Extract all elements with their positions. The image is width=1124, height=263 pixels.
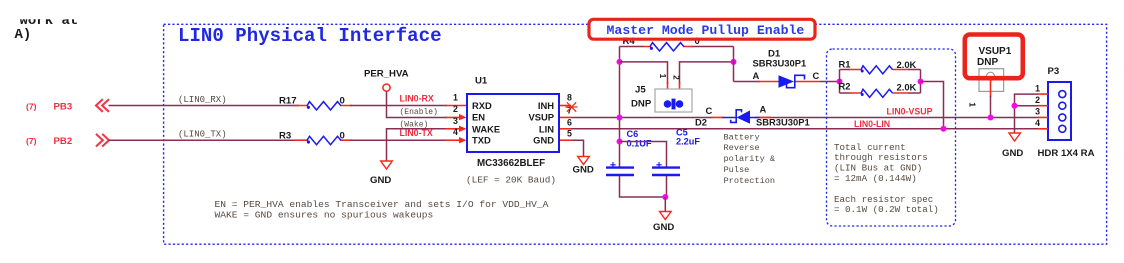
wire VSUP1 to VSUP row xyxy=(990,96,992,117)
header VSUP1 rotated pin number 1 xyxy=(968,102,978,107)
svg-text:4: 4 xyxy=(1035,118,1040,128)
no-connect X on pin 8 xyxy=(566,102,578,111)
svg-text:INH: INH xyxy=(538,100,554,111)
svg-text:(LEF = 20K Baud): (LEF = 20K Baud) xyxy=(466,174,556,185)
IC U1 body MC33662BLEF xyxy=(467,94,559,152)
pin 5 stub GND xyxy=(560,139,572,141)
jumper J5 body xyxy=(655,89,692,112)
wire J5 pin2 branch xyxy=(680,62,734,84)
diode D2 body (schottky, pointing left) xyxy=(737,110,751,123)
wire VSUP row (pin7 to D2 cathode) xyxy=(571,116,713,118)
svg-text:Battery: Battery xyxy=(724,132,760,142)
svg-text:DNP: DNP xyxy=(977,57,998,68)
dashed annotation box around R1/R2 and current note xyxy=(827,49,956,226)
svg-text:EN: EN xyxy=(472,112,485,123)
wire P3 pins 1,2 to GND xyxy=(1015,94,1039,133)
pin 3 stub with arrow (WAKE) xyxy=(445,128,460,130)
svg-text:= 12mA (0.144W): = 12mA (0.144W) xyxy=(834,173,917,184)
svg-text:WAKE: WAKE xyxy=(472,123,500,134)
wire R17 to pin 1 xyxy=(350,105,447,107)
svg-text:A: A xyxy=(760,104,767,115)
svg-text:2: 2 xyxy=(671,75,680,80)
svg-text:TXD: TXD xyxy=(472,135,491,146)
connector P3 pin stubs xyxy=(1038,94,1048,129)
svg-text:2: 2 xyxy=(1035,95,1040,105)
wire LIN0_RX from PB3 to R17 xyxy=(109,105,300,107)
svg-text:LIN0-LIN: LIN0-LIN xyxy=(854,119,890,129)
ground symbol (C5/C6) xyxy=(660,212,672,220)
pin 2 stub with arrow (EN) xyxy=(445,116,460,118)
svg-text:LIN: LIN xyxy=(539,123,554,134)
wire pin5 to ground xyxy=(572,140,584,156)
svg-text:1: 1 xyxy=(658,74,667,79)
svg-text:Pulse: Pulse xyxy=(724,165,750,175)
svg-text:WAKE = GND ensures no spurious: WAKE = GND ensures no spurious wakeups xyxy=(215,209,434,220)
svg-text:VSUP1: VSUP1 xyxy=(979,46,1012,57)
vertical R1/R2 right xyxy=(920,70,922,94)
junction dot P3 GND xyxy=(1012,103,1018,109)
svg-text:1: 1 xyxy=(453,93,458,103)
diode D1 leads xyxy=(758,81,820,83)
pin 1 stub (RXD) xyxy=(445,105,466,107)
pin 4 stub with arrow (TXD) xyxy=(445,139,460,141)
wire R1/R2 to LIN row xyxy=(921,82,944,129)
diode D1 body (schottky, pointing right) xyxy=(779,75,795,87)
junction dot R1/R2 right xyxy=(918,79,924,85)
wire to D1 anode xyxy=(734,81,761,83)
svg-text:(LIN0_TX): (LIN0_TX) xyxy=(178,130,227,140)
svg-text:Master Mode Pullup Enable: Master Mode Pullup Enable xyxy=(607,23,805,38)
svg-text:GND: GND xyxy=(533,135,554,146)
header VSUP1 contact circle xyxy=(987,72,995,80)
off-page connector chevron PB2 (right-pointing double chevron) xyxy=(96,134,109,147)
ground symbol (P3) xyxy=(1009,133,1021,141)
svg-text:C: C xyxy=(706,105,713,116)
diode D2 leads xyxy=(711,116,771,118)
resistor R1 leads xyxy=(840,69,921,71)
jumper J5 pin stubs xyxy=(668,82,680,99)
svg-text:2.0K: 2.0K xyxy=(897,81,917,92)
callout red box Master Mode Pullup Enable xyxy=(589,19,815,39)
capacitor C5 plus xyxy=(656,162,661,167)
svg-text:6: 6 xyxy=(567,117,572,127)
vertical wire R4/J5 branch to VSUP and C6 xyxy=(620,47,666,198)
svg-text:DNP: DNP xyxy=(631,99,652,110)
jumper J5 rotated pin number 1 xyxy=(658,74,667,79)
svg-text:LIN0-VSUP: LIN0-VSUP xyxy=(887,107,933,117)
junction dot J5 left xyxy=(617,59,623,65)
clipped text "work at" top-left xyxy=(20,13,79,29)
svg-text:GND: GND xyxy=(1002,148,1023,159)
resistor R3 leads xyxy=(294,139,352,141)
svg-text:(7): (7) xyxy=(26,136,37,146)
capacitor C6 plates xyxy=(606,168,634,175)
pin 8 stub INH xyxy=(560,105,571,107)
svg-text:GND: GND xyxy=(573,165,594,176)
svg-text:Total current: Total current xyxy=(834,142,906,153)
outer dashed schematic border xyxy=(164,24,1107,244)
svg-text:A): A) xyxy=(15,27,32,43)
svg-text:PER_HVA: PER_HVA xyxy=(364,69,409,80)
svg-text:R17: R17 xyxy=(279,96,297,107)
svg-text:Reverse: Reverse xyxy=(724,143,760,153)
wire D1 cathode to R1/R2 xyxy=(820,81,840,83)
svg-text:RXD: RXD xyxy=(472,100,492,111)
junction dot VSUP/J5 xyxy=(617,114,623,120)
resistor R1 zigzag xyxy=(861,66,893,74)
callout red box VSUP1 DNP xyxy=(965,35,1023,79)
junction dot VSUP1 xyxy=(988,114,994,120)
svg-text:C: C xyxy=(813,70,820,81)
resistor R4 leads xyxy=(643,46,692,48)
resistor R4 row wire xyxy=(620,46,734,48)
vertical R1/R2 left xyxy=(839,70,841,94)
pin 7 stub VSUP xyxy=(560,116,571,118)
svg-text:(7): (7) xyxy=(26,101,37,111)
svg-text:1: 1 xyxy=(968,102,978,107)
svg-text:PB3: PB3 xyxy=(54,101,73,112)
ground symbol (U1 pin5) xyxy=(578,157,590,165)
junction dot R1/R2 left xyxy=(837,79,843,85)
svg-text:R3: R3 xyxy=(279,130,291,141)
header VSUP1 pin stub xyxy=(990,80,992,97)
svg-text:HDR 1X4 RA: HDR 1X4 RA xyxy=(1038,148,1095,159)
svg-text:through resistors: through resistors xyxy=(834,152,928,163)
svg-text:2.0K: 2.0K xyxy=(897,59,917,70)
svg-text:GND: GND xyxy=(653,222,674,233)
svg-text:1: 1 xyxy=(1035,83,1040,93)
svg-text:LIN0-TX: LIN0-TX xyxy=(400,128,433,138)
resistor R17 leads xyxy=(294,105,352,107)
ground symbol (WAKE) xyxy=(381,161,393,169)
wire WAKE row to GND xyxy=(387,129,448,161)
connector P3 contact circles xyxy=(1059,91,1066,98)
resistor R4 zigzag xyxy=(650,43,684,51)
svg-text:LIN0 Physical Interface: LIN0 Physical Interface xyxy=(178,25,442,47)
svg-text:Protection: Protection xyxy=(724,176,776,186)
svg-text:3: 3 xyxy=(453,116,458,126)
pin 6 stub LIN xyxy=(560,128,571,130)
jumper J5 rotated pin number 2 xyxy=(671,75,680,80)
svg-text:PB2: PB2 xyxy=(54,136,73,147)
svg-text:D2: D2 xyxy=(695,116,707,127)
capacitor C5 plates xyxy=(652,168,680,175)
svg-text:8: 8 xyxy=(567,93,572,103)
svg-text:(Enable): (Enable) xyxy=(400,108,438,117)
svg-text:(LIN0_RX): (LIN0_RX) xyxy=(178,95,227,105)
vertical wire R4 right to D1 xyxy=(733,47,735,82)
svg-text:2.2uF: 2.2uF xyxy=(676,137,700,147)
svg-text:P3: P3 xyxy=(1048,66,1060,77)
junction dot C branch xyxy=(617,139,623,145)
off-page connector chevron PB3 (left-pointing double chevron) xyxy=(96,99,109,112)
wire to capacitor ground xyxy=(664,197,666,212)
wire J5 pin1 branch xyxy=(620,62,668,84)
svg-text:VSUP: VSUP xyxy=(528,112,554,123)
svg-text:polarity &: polarity & xyxy=(724,154,776,164)
jumper J5 contacts xyxy=(664,100,672,108)
svg-text:2: 2 xyxy=(453,104,458,114)
white mask under Master Mode callout xyxy=(591,21,814,38)
junction dot C5/C6 ground xyxy=(662,194,668,200)
svg-text:(LIN Bus at GND): (LIN Bus at GND) xyxy=(834,163,922,174)
resistor R3 zigzag xyxy=(307,136,341,144)
wire LIN row (pin6 to P3 pin4) xyxy=(571,128,1039,130)
svg-text:0.1UF: 0.1UF xyxy=(627,138,652,148)
junction dot J5 right xyxy=(731,59,737,65)
svg-text:Each resistor spec: Each resistor spec xyxy=(834,194,933,205)
svg-text:3: 3 xyxy=(1035,106,1040,116)
resistor R2 zigzag xyxy=(861,89,893,97)
svg-text:MC33662BLEF: MC33662BLEF xyxy=(477,158,545,169)
svg-text:SBR3U30P1: SBR3U30P1 xyxy=(753,58,807,69)
svg-text:R1: R1 xyxy=(839,58,851,69)
wire R3 to pin 4 xyxy=(350,139,447,141)
junction dot LIN row xyxy=(941,126,947,132)
capacitor C6 plus xyxy=(610,162,615,167)
svg-text:= 0.1W (0.2W total): = 0.1W (0.2W total) xyxy=(834,204,939,215)
svg-text:5: 5 xyxy=(567,129,572,139)
header VSUP1 body xyxy=(979,69,1004,92)
svg-text:R2: R2 xyxy=(839,81,851,92)
connector P3 body xyxy=(1048,82,1071,140)
wire VSUP row (D2 anode to P3 pin3) xyxy=(755,116,1039,118)
wire PER_HVA to EN row xyxy=(387,91,448,117)
svg-text:A: A xyxy=(753,70,760,81)
capacitor C5 branch wire xyxy=(620,142,667,198)
resistor R17 zigzag xyxy=(307,102,341,110)
svg-text:GND: GND xyxy=(370,175,391,186)
svg-text:U1: U1 xyxy=(475,76,488,87)
wire LIN0_TX from PB2 to R3 xyxy=(109,139,300,141)
svg-text:4: 4 xyxy=(453,127,458,137)
svg-text:LIN0-RX: LIN0-RX xyxy=(400,94,434,104)
svg-text:J5: J5 xyxy=(635,85,646,96)
resistor R2 leads xyxy=(840,92,921,94)
